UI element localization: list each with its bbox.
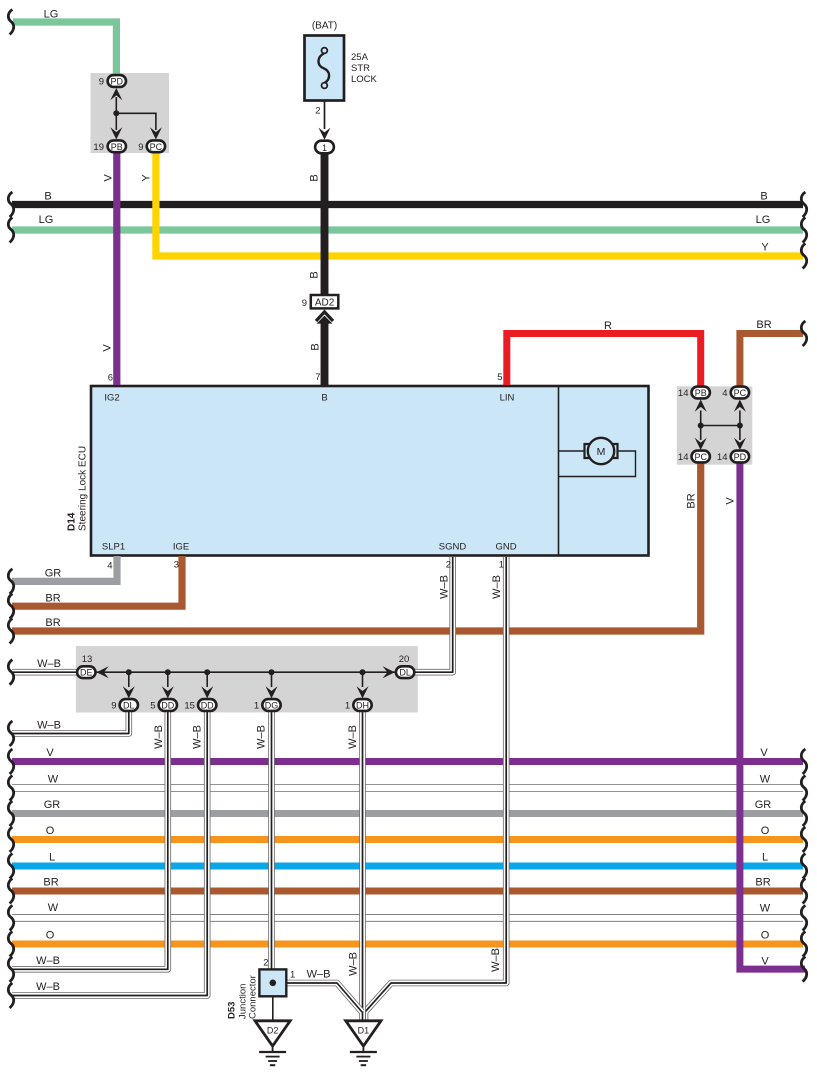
- svg-text:PD: PD: [734, 452, 747, 462]
- wire W-B from left edge to junction DE: [12, 669, 78, 676]
- svg-text:Y: Y: [761, 242, 769, 254]
- label BR wire left: [45, 593, 60, 605]
- label BR wire below right box: [686, 493, 698, 508]
- junction connector D53: [227, 958, 296, 1020]
- junction internals of right box: dots and arrows: [695, 400, 746, 451]
- svg-text:B: B: [44, 191, 51, 203]
- wire W-B from junction DG 1 to junction connector D53: [268, 711, 275, 970]
- wire V bus (bottom row 1): [12, 758, 803, 765]
- svg-text:LOCK: LOCK: [351, 74, 378, 85]
- wire W-B from junction DL 9 to left edge: [12, 711, 129, 734]
- svg-text:7: 7: [315, 372, 320, 383]
- svg-text:W–B: W–B: [256, 725, 268, 749]
- ECU pin number 7: [315, 372, 320, 383]
- label Y bus right: [761, 242, 769, 254]
- wire V from connector PD down and to right edge: [740, 463, 805, 969]
- svg-text:9: 9: [111, 701, 116, 712]
- svg-text:M: M: [597, 446, 606, 458]
- connector DH pin 1: [345, 699, 372, 711]
- svg-text:V: V: [103, 174, 115, 182]
- label W bus right (2nd): [760, 903, 771, 915]
- label O bus left: [46, 825, 55, 837]
- label W bus left: [48, 774, 59, 786]
- svg-text:D53: D53: [227, 1002, 238, 1019]
- wire L bus (bottom row 5): [12, 863, 803, 870]
- svg-text:14: 14: [717, 452, 728, 463]
- svg-text:B: B: [321, 393, 327, 404]
- wire V from connector PB to ECU IG2 pin 6: [113, 152, 120, 385]
- wire from D53 to ground D2: [272, 996, 274, 1021]
- svg-text:O: O: [761, 825, 770, 837]
- ECU name Steering Lock ECU: [78, 446, 89, 531]
- connector PC pin 9: [138, 140, 165, 152]
- label GR wire left: [45, 568, 62, 580]
- wire W bus (bottom row 2): [12, 784, 803, 792]
- svg-text:Connector: Connector: [248, 975, 259, 1019]
- svg-text:V: V: [760, 747, 768, 759]
- svg-text:V: V: [761, 956, 769, 968]
- ECU designator D14: [67, 512, 78, 531]
- svg-text:1: 1: [322, 143, 327, 153]
- svg-text:14: 14: [678, 388, 689, 399]
- label V wire below right box: [725, 497, 737, 505]
- ECU pin number 3: [174, 560, 179, 571]
- svg-text:PB: PB: [695, 388, 707, 398]
- svg-text:W–B: W–B: [153, 725, 165, 749]
- label L bus left: [49, 852, 55, 864]
- label B wire (below Y): [309, 271, 321, 278]
- label W-B on DH wire (bottom): [348, 952, 360, 976]
- svg-text:SGND: SGND: [439, 542, 467, 553]
- svg-text:3: 3: [174, 560, 179, 571]
- svg-text:V: V: [102, 344, 114, 352]
- svg-text:DE: DE: [80, 668, 93, 678]
- wire O bus (bottom row 8): [12, 941, 803, 948]
- svg-text:19: 19: [93, 142, 104, 153]
- connector PC pin 14 (right box bottom): [678, 451, 710, 463]
- svg-text:GR: GR: [45, 568, 62, 580]
- svg-text:GR: GR: [44, 799, 61, 811]
- svg-text:BR: BR: [45, 593, 60, 605]
- svg-text:PD: PD: [111, 77, 124, 87]
- ECU pin number 5: [497, 372, 502, 383]
- label GR bus left: [44, 799, 61, 811]
- label W-B bus left (row 10): [36, 981, 60, 993]
- svg-text:5: 5: [150, 701, 155, 712]
- svg-text:DG: DG: [265, 701, 279, 711]
- ECU pin label SGND: [439, 542, 467, 553]
- svg-text:L: L: [49, 852, 55, 864]
- svg-text:6: 6: [108, 373, 113, 384]
- svg-text:DL: DL: [399, 668, 411, 678]
- svg-text:BR: BR: [756, 319, 771, 331]
- svg-text:13: 13: [82, 654, 93, 665]
- connector PB pin 19: [93, 140, 126, 152]
- svg-text:14: 14: [678, 452, 689, 463]
- svg-text:GND: GND: [495, 542, 516, 553]
- connector PC pin 4 (right box): [722, 387, 749, 399]
- svg-text:D1: D1: [358, 1026, 370, 1036]
- svg-text:D14: D14: [67, 512, 78, 531]
- wire BR from right edge to connector PC: [740, 334, 803, 386]
- svg-text:W: W: [760, 903, 771, 915]
- svg-text:BR: BR: [686, 493, 698, 508]
- svg-text:1: 1: [254, 701, 259, 712]
- svg-text:B: B: [760, 191, 767, 203]
- svg-text:O: O: [46, 930, 55, 942]
- svg-text:BR: BR: [755, 877, 770, 889]
- label LG bus right: [756, 214, 771, 226]
- connector PD pin 9: [99, 75, 126, 87]
- label BR bus left (bottom): [43, 877, 58, 889]
- label W-B from DL: [37, 720, 61, 732]
- svg-text:V: V: [46, 747, 54, 759]
- svg-text:PC: PC: [694, 452, 707, 462]
- label BR bus right: [755, 877, 770, 889]
- wire W-B from ECU SGND pin 2 to junction DL 20: [414, 557, 453, 672]
- wire GR from SLP1 pin 4: [12, 556, 117, 581]
- ECU pin label LIN: [500, 393, 515, 404]
- svg-text:25A: 25A: [351, 52, 369, 63]
- ECU pin number 2: [446, 560, 451, 571]
- svg-text:4: 4: [107, 561, 112, 572]
- label O bus right (2nd): [761, 930, 770, 942]
- connector AD2 pin 9: [302, 295, 339, 321]
- svg-text:W–B: W–B: [36, 981, 60, 993]
- svg-text:9: 9: [138, 142, 143, 153]
- svg-text:4: 4: [722, 388, 727, 399]
- connector DG pin 1: [254, 699, 281, 711]
- svg-text:W–B: W–B: [491, 575, 503, 599]
- label BR bus left: [45, 617, 60, 629]
- label W-B wire SGND: [439, 575, 451, 599]
- ECU pin label B: [321, 393, 327, 404]
- svg-text:2: 2: [315, 106, 320, 117]
- svg-text:W–B: W–B: [37, 658, 61, 670]
- svg-text:W: W: [48, 902, 59, 914]
- label V bus right: [760, 747, 768, 759]
- connector PB pin 14 (right box): [678, 387, 710, 399]
- svg-text:W–B: W–B: [307, 969, 331, 981]
- svg-text:DH: DH: [356, 701, 369, 711]
- svg-text:W–B: W–B: [192, 725, 204, 749]
- svg-text:W–B: W–B: [347, 725, 359, 749]
- wire B bus (black horizontal): [12, 201, 803, 208]
- wire LG from top-left to connector PD: [13, 22, 116, 75]
- label LG bus left: [39, 214, 54, 226]
- svg-text:B: B: [310, 343, 322, 350]
- svg-text:1: 1: [499, 560, 504, 571]
- wire W-B from junction DH 1 to ground D1: [359, 711, 366, 1020]
- svg-text:IG2: IG2: [104, 393, 119, 404]
- svg-text:(BAT): (BAT): [312, 21, 337, 32]
- svg-text:LIN: LIN: [500, 393, 515, 404]
- svg-text:2: 2: [446, 560, 451, 571]
- svg-text:IGE: IGE: [173, 542, 189, 553]
- label BR wire top right: [756, 319, 771, 331]
- svg-text:V: V: [725, 497, 737, 505]
- label O bus left (2nd): [46, 930, 55, 942]
- label B wire (below AD2): [310, 343, 322, 350]
- break symbols left edge: [8, 10, 13, 1009]
- wire R from ECU LIN pin 5 to connector PB: [507, 334, 701, 386]
- svg-text:PC: PC: [150, 142, 163, 152]
- wire LG bus (light green horizontal): [12, 226, 803, 233]
- svg-text:DL: DL: [123, 701, 135, 711]
- ground D1: [346, 1021, 381, 1065]
- fuse pin 2 wire and arrow to node 1: [315, 101, 330, 140]
- label B wire (above bus): [309, 174, 321, 181]
- svg-text:W–B: W–B: [348, 952, 360, 976]
- label W bus left (2nd): [48, 902, 59, 914]
- svg-text:STR: STR: [351, 63, 370, 74]
- svg-text:R: R: [604, 320, 612, 332]
- connector DD pin 15: [184, 699, 216, 711]
- svg-text:Steering Lock ECU: Steering Lock ECU: [78, 446, 89, 531]
- svg-text:2: 2: [263, 958, 268, 969]
- svg-text:15: 15: [184, 701, 195, 712]
- label B bus right: [760, 191, 767, 203]
- ECU pin label SLP1: [102, 542, 125, 553]
- label Y wire: [141, 174, 153, 182]
- svg-text:Y: Y: [141, 174, 153, 182]
- svg-text:DD: DD: [201, 701, 214, 711]
- svg-text:LG: LG: [44, 9, 59, 21]
- label W-B wire GND: [491, 575, 503, 599]
- svg-text:B: B: [309, 271, 321, 278]
- svg-text:1: 1: [345, 701, 350, 712]
- svg-text:O: O: [761, 930, 770, 942]
- svg-text:W–B: W–B: [36, 955, 60, 967]
- svg-text:LG: LG: [756, 214, 771, 226]
- wire W-B from junction connector D53 pin 1 to ground D1: [286, 983, 362, 1012]
- svg-text:L: L: [762, 852, 768, 864]
- wire W bus (bottom row 7): [12, 914, 803, 922]
- ground D2: [255, 1021, 290, 1065]
- svg-text:20: 20: [399, 654, 410, 665]
- label O bus right: [761, 825, 770, 837]
- svg-text:DD: DD: [161, 701, 174, 711]
- connector junction box P (gray, top-left): [91, 73, 170, 153]
- label V wire (upper): [103, 174, 115, 182]
- wire Y from connector PC to right edge: [156, 152, 803, 256]
- ECU pin label IGE: [173, 542, 189, 553]
- svg-text:5: 5: [497, 372, 502, 383]
- label W-B on DD15 wire: [192, 725, 204, 749]
- motor M inside ECU: [559, 438, 636, 477]
- label W-B on GND wire (bottom): [490, 948, 502, 972]
- wire W-B from junction DD 5 to left edge: [12, 711, 168, 969]
- svg-text:W–B: W–B: [439, 575, 451, 599]
- svg-text:GR: GR: [755, 799, 772, 811]
- connector PD pin 14 (right box bottom): [717, 451, 749, 463]
- wire BR from IGE pin 3: [12, 556, 182, 606]
- ECU pin number 6: [108, 373, 113, 384]
- break symbols right edge: [801, 192, 806, 982]
- op: ECU box D14 Steering Lock ECU: [91, 386, 649, 556]
- label W-B on DD5 wire: [153, 725, 165, 749]
- wire BR long bus to connector PC: [12, 463, 701, 631]
- ECU pin number 4: [107, 561, 112, 572]
- label W-B on DH wire: [347, 725, 359, 749]
- wire B from fuse to ECU pin 7: [317, 153, 333, 385]
- svg-text:W: W: [48, 774, 59, 786]
- connector DL pin 9: [111, 699, 138, 711]
- svg-text:SLP1: SLP1: [102, 542, 125, 553]
- svg-text:W–B: W–B: [490, 948, 502, 972]
- svg-text:BR: BR: [43, 877, 58, 889]
- svg-text:O: O: [46, 825, 55, 837]
- label LG top: [44, 9, 59, 21]
- label V wire (lower): [102, 344, 114, 352]
- ECU pin label IG2: [104, 393, 119, 404]
- wire O bus (bottom row 4): [12, 836, 803, 843]
- svg-text:PB: PB: [111, 142, 123, 152]
- svg-text:W: W: [760, 774, 771, 786]
- connector DL pin 20: [396, 654, 414, 678]
- connector DD pin 5: [150, 699, 177, 711]
- svg-text:LG: LG: [39, 214, 54, 226]
- svg-text:9: 9: [302, 298, 307, 309]
- ECU pin label GND: [495, 542, 516, 553]
- ECU pin number 1: [499, 560, 504, 571]
- label W-B at D53: [307, 969, 331, 981]
- connector junction box P2 (gray, right): [677, 386, 753, 464]
- svg-text:D2: D2: [267, 1026, 279, 1036]
- label B bus left: [44, 191, 51, 203]
- junction internals of top-left box: arrow to PD, dot, arrows to PB and PC: [110, 88, 162, 140]
- svg-text:1: 1: [290, 970, 295, 981]
- svg-text:PC: PC: [734, 388, 747, 398]
- fuse 25A STR LOCK (BAT): [305, 21, 378, 101]
- wire GR bus (bottom row 3): [12, 810, 803, 817]
- label W-B left of DE: [37, 658, 61, 670]
- label V bus left: [46, 747, 54, 759]
- node 1 connector oval: [315, 141, 334, 154]
- label V bus right (bottom): [761, 956, 769, 968]
- wire BR bus (bottom row 6): [12, 888, 803, 895]
- label GR bus right: [755, 799, 772, 811]
- connector junction box D (gray, bottom): [76, 646, 418, 713]
- label L bus right: [762, 852, 768, 864]
- label W-B bus left (row 9): [36, 955, 60, 967]
- junction internals of bottom box: line, dots, arrows: [96, 666, 395, 698]
- svg-text:9: 9: [99, 77, 104, 88]
- label W bus right: [760, 774, 771, 786]
- connector DE pin 13: [77, 654, 95, 678]
- svg-text:B: B: [309, 174, 321, 181]
- svg-text:W–B: W–B: [37, 720, 61, 732]
- svg-text:AD2: AD2: [315, 297, 335, 308]
- svg-text:BR: BR: [45, 617, 60, 629]
- wire W-B from ECU GND pin 1 to ground D1: [365, 557, 506, 1020]
- wire W-B from junction DD 15 to left edge: [12, 711, 207, 996]
- label W-B on DG wire: [256, 725, 268, 749]
- label R wire: [604, 320, 612, 332]
